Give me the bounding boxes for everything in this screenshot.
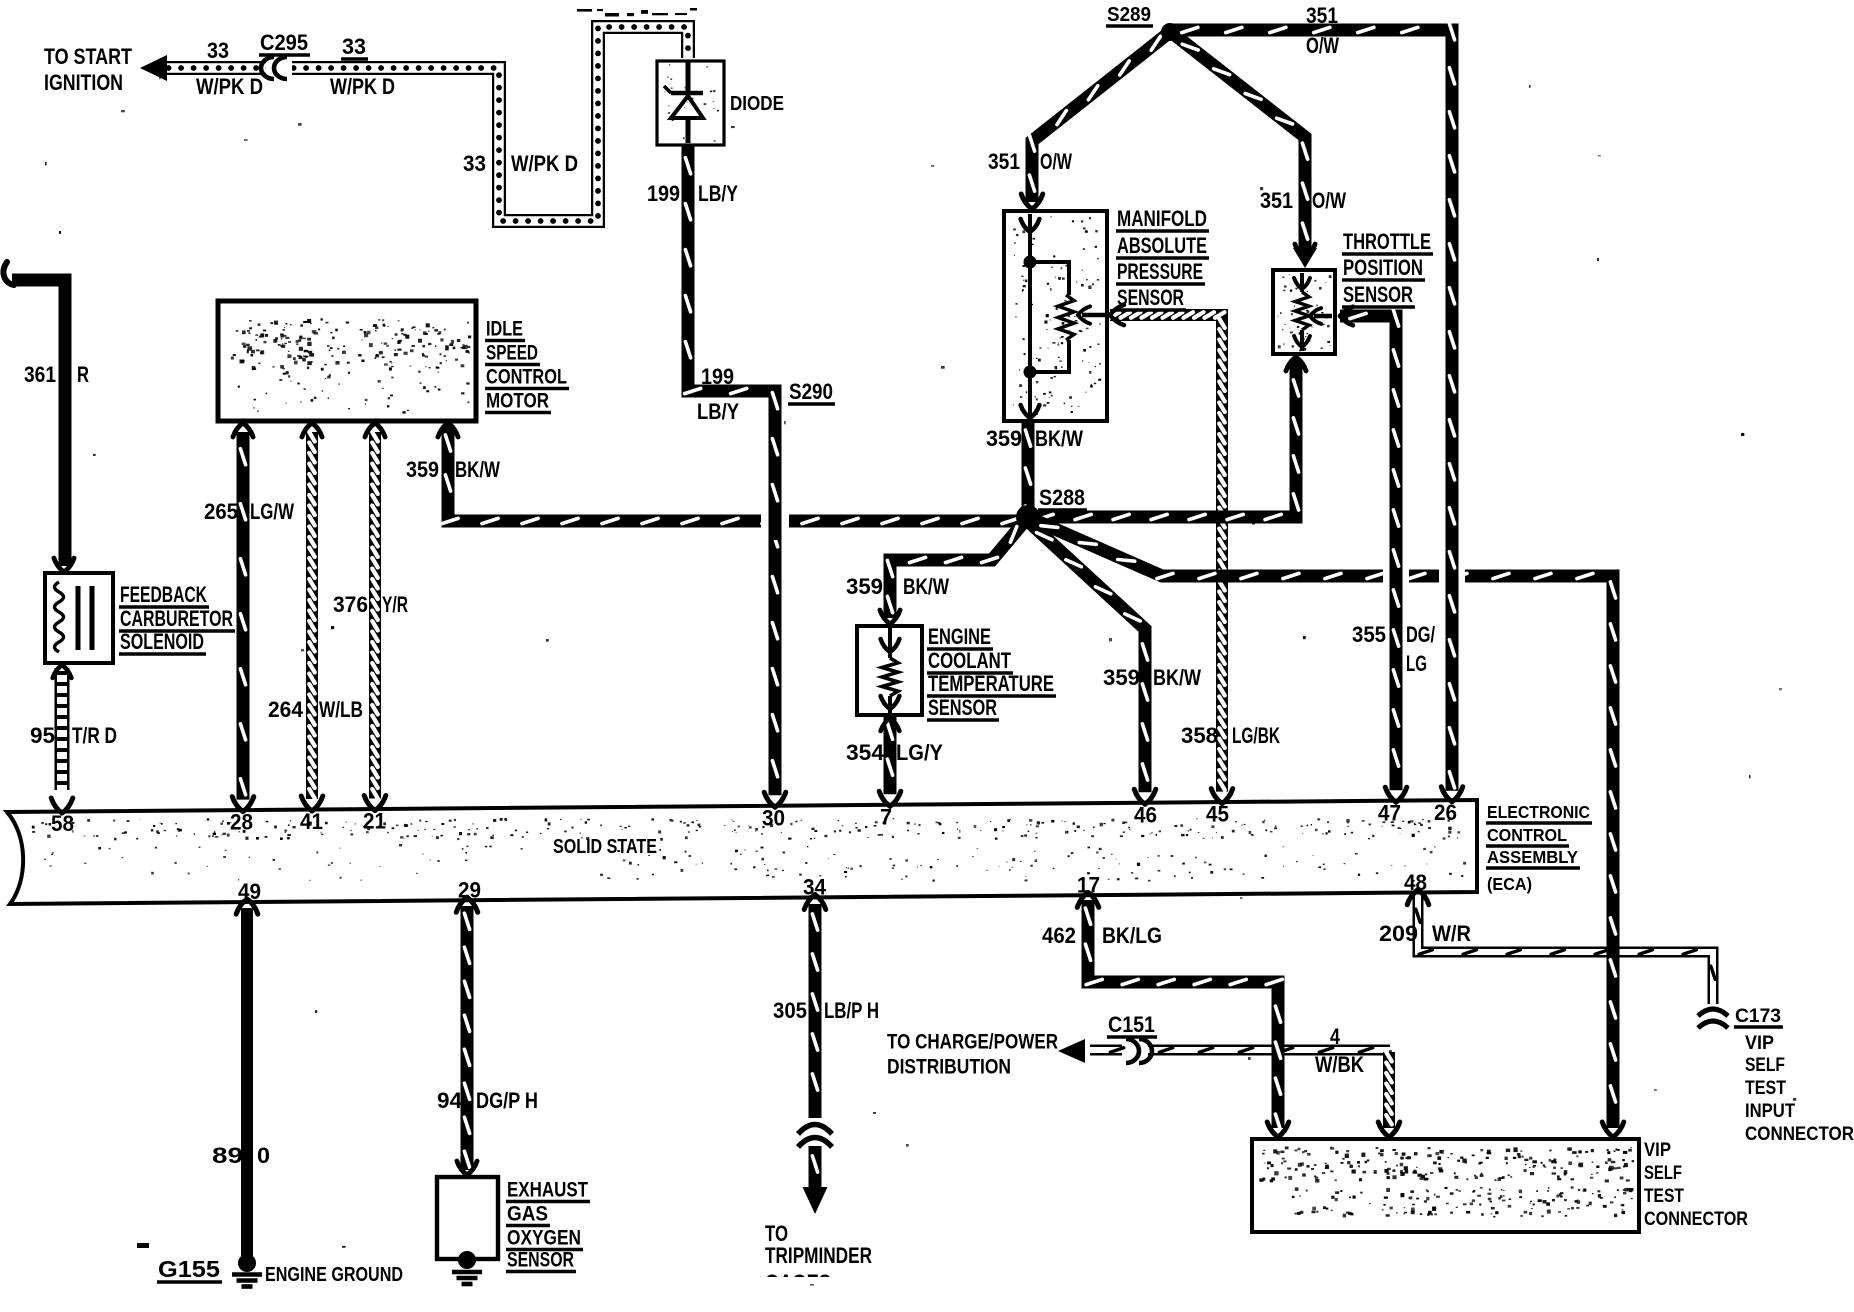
svg-text:95: 95 — [30, 723, 55, 748]
svg-text:W/PK D: W/PK D — [330, 74, 395, 99]
svg-text:W/R: W/R — [1432, 921, 1471, 946]
svg-text:199: 199 — [647, 181, 680, 206]
svg-text:351: 351 — [988, 149, 1020, 174]
svg-text:ENGINE GROUND: ENGINE GROUND — [265, 1263, 403, 1286]
svg-text:94: 94 — [437, 1088, 463, 1113]
svg-text:W/PK D: W/PK D — [196, 74, 263, 99]
svg-text:358: 358 — [1181, 723, 1218, 748]
svg-text:199: 199 — [701, 364, 734, 389]
svg-text:361: 361 — [24, 362, 56, 387]
svg-text:LG/Y: LG/Y — [896, 740, 943, 765]
svg-text:EXHAUST: EXHAUST — [507, 1178, 588, 1202]
svg-text:45: 45 — [1206, 802, 1229, 827]
svg-text:T/R D: T/R D — [72, 723, 117, 748]
svg-text:34: 34 — [803, 875, 827, 900]
svg-text:IGNITION: IGNITION — [44, 70, 123, 95]
svg-text:305: 305 — [773, 998, 807, 1023]
svg-text:(ECA): (ECA) — [1487, 874, 1532, 894]
svg-text:SELF: SELF — [1745, 1055, 1785, 1076]
svg-text:C151: C151 — [1108, 1012, 1155, 1037]
svg-text:ABSOLUTE: ABSOLUTE — [1117, 233, 1207, 258]
svg-text:TO CHARGE/POWER: TO CHARGE/POWER — [887, 1030, 1058, 1054]
svg-text:PRESSURE: PRESSURE — [1117, 259, 1203, 284]
svg-text:462: 462 — [1042, 923, 1076, 948]
svg-text:POSITION: POSITION — [1343, 255, 1423, 280]
svg-text:LG/BK: LG/BK — [1232, 723, 1280, 748]
svg-text:SPEED: SPEED — [486, 341, 538, 365]
svg-text:SOLID STATE: SOLID STATE — [553, 835, 657, 858]
svg-text:GAS: GAS — [507, 1202, 548, 1226]
svg-text:CONTROL: CONTROL — [1487, 825, 1567, 845]
svg-text:351: 351 — [1260, 188, 1293, 213]
svg-text:26: 26 — [1434, 800, 1457, 825]
svg-text:TEMPERATURE: TEMPERATURE — [928, 671, 1054, 696]
svg-text:TEST: TEST — [1745, 1078, 1786, 1099]
svg-text:ASSEMBLY: ASSEMBLY — [1487, 847, 1578, 867]
svg-text:359: 359 — [846, 574, 883, 599]
svg-text:17: 17 — [1077, 872, 1100, 897]
svg-text:G155: G155 — [158, 1256, 220, 1282]
svg-text:O/W: O/W — [1312, 188, 1346, 213]
svg-text:W/LB: W/LB — [319, 697, 363, 722]
svg-text:LG: LG — [1406, 651, 1427, 676]
svg-text:MOTOR: MOTOR — [486, 389, 549, 413]
svg-text:CONNECTOR: CONNECTOR — [1745, 1124, 1854, 1145]
svg-text:W/PK D: W/PK D — [511, 151, 578, 176]
svg-text:209: 209 — [1379, 921, 1418, 946]
svg-text:BK/W: BK/W — [1153, 665, 1201, 690]
svg-text:ELECTRONIC: ELECTRONIC — [1487, 802, 1590, 822]
svg-text:47: 47 — [1378, 800, 1401, 825]
svg-text:DIODE: DIODE — [730, 92, 784, 115]
svg-text:O/W: O/W — [1040, 149, 1072, 174]
svg-text:BK/LG: BK/LG — [1102, 923, 1162, 948]
svg-text:7: 7 — [880, 804, 892, 829]
svg-text:SOLENOID: SOLENOID — [120, 629, 204, 654]
svg-text:C295: C295 — [260, 30, 308, 55]
svg-text:33: 33 — [207, 38, 229, 63]
svg-text:355: 355 — [1352, 622, 1386, 647]
svg-text:CARBURETOR: CARBURETOR — [120, 606, 233, 631]
svg-text:46: 46 — [1134, 802, 1157, 827]
svg-text:351: 351 — [1306, 3, 1338, 28]
svg-text:CONTROL: CONTROL — [486, 365, 567, 389]
svg-text:SENSOR: SENSOR — [1343, 282, 1413, 307]
svg-text:LB/Y: LB/Y — [697, 399, 739, 424]
svg-text:FEEDBACK: FEEDBACK — [120, 582, 207, 607]
svg-text:359: 359 — [986, 426, 1022, 451]
svg-text:IDLE: IDLE — [486, 317, 523, 341]
svg-text:TO START: TO START — [44, 44, 133, 69]
svg-text:SENSOR: SENSOR — [928, 695, 997, 720]
svg-text:0: 0 — [257, 1143, 270, 1168]
svg-text:21: 21 — [363, 809, 386, 834]
svg-text:S288: S288 — [1039, 485, 1085, 510]
svg-text:LB/Y: LB/Y — [698, 181, 738, 206]
svg-text:INPUT: INPUT — [1745, 1101, 1795, 1122]
svg-text:CONNECTOR: CONNECTOR — [1644, 1209, 1748, 1230]
svg-text:48: 48 — [1404, 870, 1427, 895]
svg-text:C173: C173 — [1735, 1006, 1781, 1027]
svg-text:COOLANT: COOLANT — [928, 648, 1011, 673]
svg-text:W/BK: W/BK — [1315, 1052, 1364, 1077]
svg-text:265: 265 — [204, 499, 238, 524]
svg-text:VIP: VIP — [1745, 1033, 1774, 1054]
svg-text:THROTTLE: THROTTLE — [1343, 229, 1431, 254]
svg-text:MANIFOLD: MANIFOLD — [1117, 206, 1207, 231]
svg-text:S290: S290 — [789, 379, 833, 404]
svg-text:376: 376 — [333, 592, 368, 617]
svg-text:R: R — [77, 362, 89, 387]
svg-text:TEST: TEST — [1644, 1186, 1684, 1207]
svg-text:58: 58 — [51, 811, 74, 836]
svg-text:DG/P H: DG/P H — [476, 1088, 538, 1113]
svg-text:BK/W: BK/W — [455, 457, 500, 482]
svg-text:264: 264 — [268, 697, 304, 722]
svg-text:4: 4 — [1330, 1024, 1341, 1049]
svg-text:30: 30 — [762, 805, 785, 830]
svg-text:Y/R: Y/R — [382, 592, 408, 617]
svg-text:359: 359 — [1103, 665, 1140, 690]
svg-text:OXYGEN: OXYGEN — [507, 1226, 581, 1250]
svg-text:DG/: DG/ — [1406, 622, 1435, 647]
svg-text:89: 89 — [212, 1143, 243, 1168]
svg-text:SELF: SELF — [1644, 1163, 1682, 1184]
svg-text:SENSOR: SENSOR — [1117, 285, 1184, 310]
svg-text:LG/W: LG/W — [250, 499, 294, 524]
svg-text:LB/P H: LB/P H — [824, 998, 879, 1023]
svg-text:VIP: VIP — [1644, 1140, 1671, 1161]
svg-text:DISTRIBUTION: DISTRIBUTION — [887, 1055, 1011, 1079]
svg-text:33: 33 — [342, 34, 366, 59]
svg-text:BK/W: BK/W — [1035, 426, 1083, 451]
svg-text:28: 28 — [230, 810, 253, 835]
svg-text:SENSOR: SENSOR — [507, 1248, 574, 1272]
svg-text:33: 33 — [463, 151, 486, 176]
svg-text:29: 29 — [458, 877, 481, 902]
svg-text:49: 49 — [238, 879, 261, 904]
svg-text:O/W: O/W — [1306, 33, 1339, 58]
svg-text:ENGINE: ENGINE — [928, 624, 991, 649]
svg-text:S289: S289 — [1107, 3, 1151, 26]
svg-text:TRIPMINDER: TRIPMINDER — [765, 1243, 872, 1268]
svg-text:359: 359 — [406, 457, 439, 482]
svg-text:354: 354 — [846, 740, 885, 765]
svg-text:BK/W: BK/W — [903, 574, 949, 599]
